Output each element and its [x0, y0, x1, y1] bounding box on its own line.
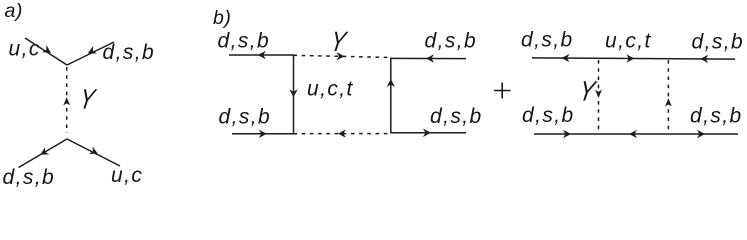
Y boson propagator (box2 right dashed vertical) — [667, 60, 669, 133]
arrow on a) bottom-left line away from vertex — [38, 147, 49, 158]
arrow on box1 left vertical pointing down — [289, 89, 297, 97]
arrow on box2 left dashed Y propagator pointing down — [595, 90, 602, 98]
arrow on box1 right vertical pointing up — [387, 79, 395, 87]
svg-text:d,s,b: d,s,b — [103, 41, 156, 64]
arrow on box2 top line middle segment pointing right — [626, 54, 634, 62]
arrow on a) top-right line toward vertex — [86, 46, 97, 57]
arrow on box2 bottom line left segment pointing right — [563, 130, 571, 138]
svg-text:d,s,b: d,s,b — [219, 106, 272, 129]
Y boson propagator (box1 top dashed edge) — [294, 55, 391, 57]
external quark line d,s,b (box1 bottom-right) — [391, 132, 466, 134]
arrow on box1 top-left external line pointing left — [258, 51, 266, 59]
svg-text:d,s,b: d,s,b — [690, 105, 743, 128]
arrow on box2 right dashed propagator pointing up — [665, 98, 672, 106]
external quark line d,s,b (box1 top-right) — [391, 57, 466, 59]
svg-text:d,s,b: d,s,b — [522, 104, 575, 127]
svg-text:d,s,b: d,s,b — [521, 29, 574, 52]
Y boson propagator (box1 bottom dashed edge) — [294, 133, 391, 135]
arrow on box1 top-right external line pointing left — [426, 54, 434, 62]
arrow on box2 top line left segment pointing left — [562, 54, 570, 62]
svg-text:d,s,b: d,s,b — [3, 166, 56, 189]
svg-text:u,c: u,c — [9, 38, 41, 61]
external quark line d,s,b (box1 top-left) — [229, 54, 294, 56]
quark line bottom (box2 horizontal bottom) — [534, 133, 738, 135]
arrow on box1 bottom-left external line pointing right — [259, 130, 267, 138]
arrow on box1 top dashed edge pointing right — [336, 52, 344, 61]
svg-text:u,c: u,c — [111, 164, 143, 187]
label Y (box2 left propagator) — [577, 75, 599, 107]
arrow on a) top-left line toward vertex — [42, 45, 53, 56]
arrow on box2 bottom line middle segment pointing left — [629, 130, 637, 138]
svg-text:d,s,b: d,s,b — [425, 30, 478, 53]
quark line d,s,b incoming (diagram a top-right) — [67, 42, 114, 65]
Y boson propagator (diagram a, dashed vertical) — [66, 67, 68, 133]
svg-text:Y: Y — [328, 25, 350, 57]
Y boson propagator (box2 left dashed vertical) — [598, 60, 600, 133]
svg-text:b): b) — [213, 7, 231, 29]
svg-text:u,c,t: u,c,t — [307, 78, 354, 101]
svg-text:d,s,b: d,s,b — [430, 105, 483, 128]
arrow on box2 bottom line right segment pointing right — [697, 130, 705, 138]
internal quark line u,c,t (box1 left vertical) — [293, 55, 295, 134]
svg-text:Y: Y — [77, 83, 99, 115]
label Y (box1 top) — [328, 25, 350, 57]
plus sign between diagrams — [494, 83, 511, 99]
quark line u,c outgoing (diagram a bottom-right) — [67, 139, 120, 166]
svg-text:d,s,b: d,s,b — [692, 31, 745, 54]
external quark line d,s,b (box1 bottom-left) — [232, 133, 294, 135]
svg-text:u,c,t: u,c,t — [605, 29, 652, 52]
quark line top (box2 horizontal top) — [532, 58, 735, 59]
arrow on a) dashed Y propagator pointing up — [63, 97, 70, 105]
svg-text:d,s,b: d,s,b — [218, 30, 271, 53]
quark line u,c incoming (diagram a top-left) — [25, 38, 67, 65]
label Y (a propagator) — [77, 83, 99, 115]
quark line d,s,b outgoing (diagram a bottom-left) — [19, 139, 68, 168]
internal quark line u,c,t (box1 right vertical) — [390, 58, 392, 134]
arrow on box2 top line right segment pointing left — [700, 55, 708, 63]
arrow on a) bottom-right line away from vertex — [89, 146, 100, 157]
arrow on box1 bottom dashed edge pointing left — [338, 129, 346, 137]
svg-text:a): a) — [5, 0, 23, 22]
arrow on box1 bottom-right external line pointing right — [423, 129, 431, 137]
